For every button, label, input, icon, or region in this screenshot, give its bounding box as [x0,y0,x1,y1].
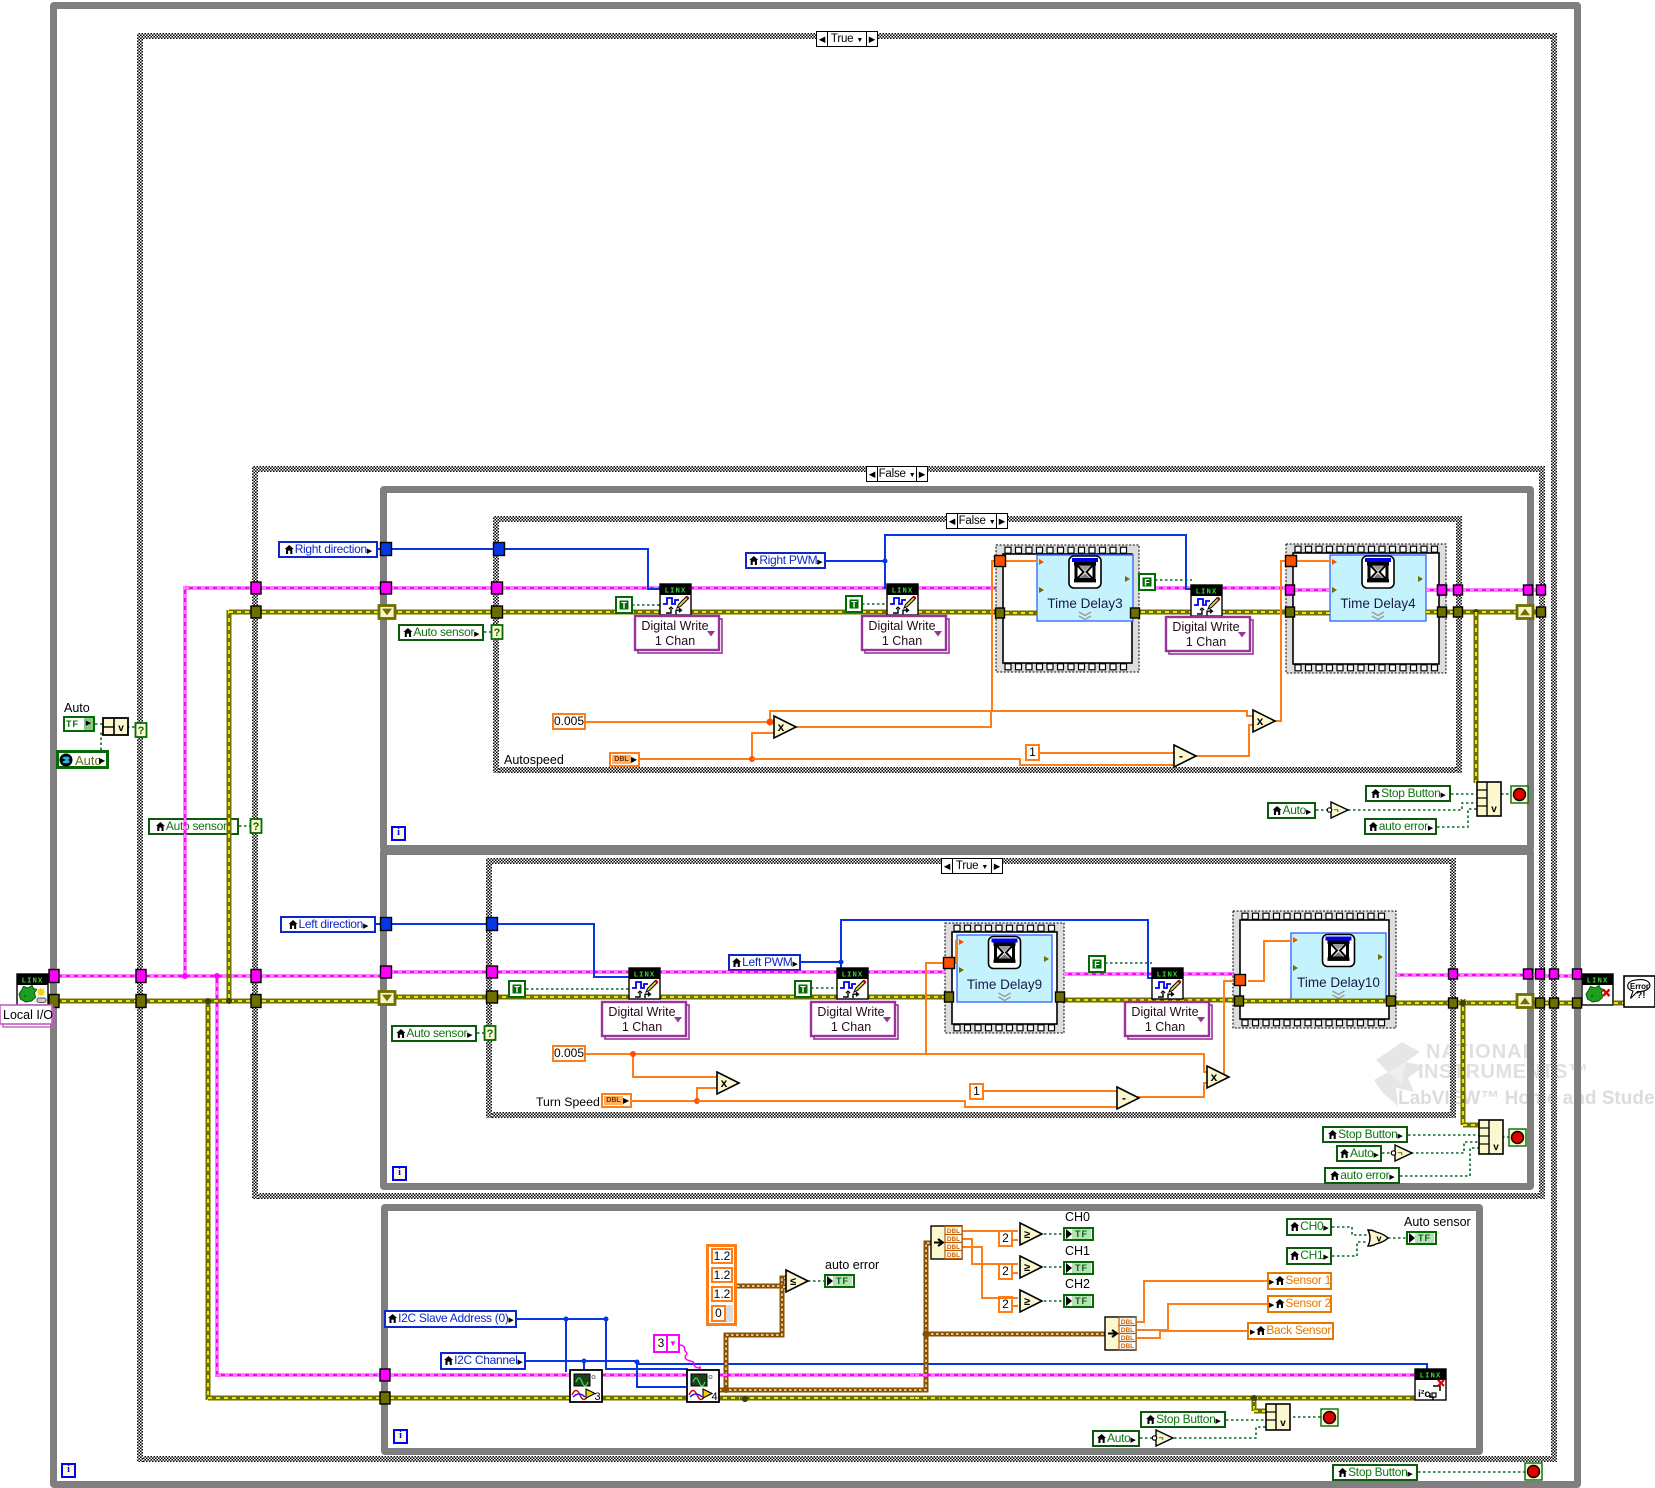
svg-text:Time Delay10: Time Delay10 [1297,975,1380,990]
svg-text:?!: ?! [1637,990,1646,1001]
svg-text:1 Chan: 1 Chan [831,1020,871,1034]
svg-text:Local I/O: Local I/O [3,1008,53,1022]
svg-text:1 Chan: 1 Chan [882,634,922,648]
svg-text:v: v [118,723,124,734]
svg-text:1 Chan: 1 Chan [655,634,695,648]
svg-text:Time Delay3: Time Delay3 [1047,596,1122,611]
svg-text:LINX: LINX [1196,589,1218,597]
svg-text:DBL: DBL [947,1228,960,1235]
svg-text:v: v [1376,1234,1381,1244]
svg-text:1 Chan: 1 Chan [1186,635,1226,649]
svg-text:DBL: DBL [1121,1327,1134,1334]
svg-text:x: x [1257,714,1264,728]
svg-text:≥: ≥ [1024,1229,1030,1241]
svg-text:LINX: LINX [1420,1373,1442,1381]
svg-text:LINX: LINX [634,972,656,980]
svg-text:T: T [514,985,520,995]
svg-text:v: v [1493,1142,1499,1153]
svg-text:DBL: DBL [1121,1343,1134,1350]
svg-text:x: x [1211,1070,1218,1084]
svg-text:DBL: DBL [947,1236,960,1243]
svg-text:1 Chan: 1 Chan [1145,1020,1185,1034]
svg-text:3: 3 [594,1391,600,1403]
svg-text:LINX: LINX [842,972,864,980]
svg-text:v: v [1491,804,1497,815]
svg-text:x: x [778,720,785,734]
svg-text:?: ? [487,1028,494,1040]
svg-text:Digital Write: Digital Write [608,1005,675,1019]
svg-text:DBL: DBL [947,1252,960,1259]
svg-text:≥: ≥ [1024,1296,1030,1308]
svg-text:Digital Write: Digital Write [1172,620,1239,634]
svg-text:Time Delay9: Time Delay9 [967,977,1042,992]
svg-text:Digital Write: Digital Write [1131,1005,1198,1019]
svg-text:T: T [621,601,627,611]
svg-text:i²c: i²c [1418,1388,1430,1400]
svg-text:T: T [800,985,806,995]
svg-text:¬: ¬ [1333,805,1338,815]
svg-text:DBL: DBL [1121,1319,1134,1326]
svg-text:1 Chan: 1 Chan [622,1020,662,1034]
svg-text:F: F [1094,960,1100,970]
svg-text:¬: ¬ [1397,1148,1402,1158]
svg-text:?: ? [253,821,260,833]
svg-text:Time Delay4: Time Delay4 [1340,596,1416,611]
svg-text:LINX: LINX [1587,978,1609,986]
svg-text:LINX: LINX [1157,972,1179,980]
svg-text:Digital Write: Digital Write [817,1005,884,1019]
svg-text:F: F [1144,578,1150,588]
svg-text:Digital Write: Digital Write [641,619,708,633]
svg-text:LINX: LINX [665,588,687,596]
svg-text:4: 4 [711,1391,717,1403]
svg-text:?: ? [494,627,501,639]
svg-text:T: T [851,600,857,610]
svg-text:x: x [721,1076,728,1090]
svg-text:LINX: LINX [892,588,914,596]
svg-text:-: - [1122,1091,1126,1105]
svg-text:-: - [1179,749,1183,763]
svg-text:¬: ¬ [1158,1433,1163,1443]
svg-text:DBL: DBL [947,1244,960,1251]
svg-text:?: ? [138,725,145,737]
svg-text:≥: ≥ [1024,1262,1030,1274]
svg-text:≤: ≤ [790,1276,796,1288]
svg-text:LINX: LINX [22,978,44,986]
svg-text:Digital Write: Digital Write [868,619,935,633]
svg-text:v: v [1280,1418,1286,1429]
svg-text:DBL: DBL [1121,1335,1134,1342]
